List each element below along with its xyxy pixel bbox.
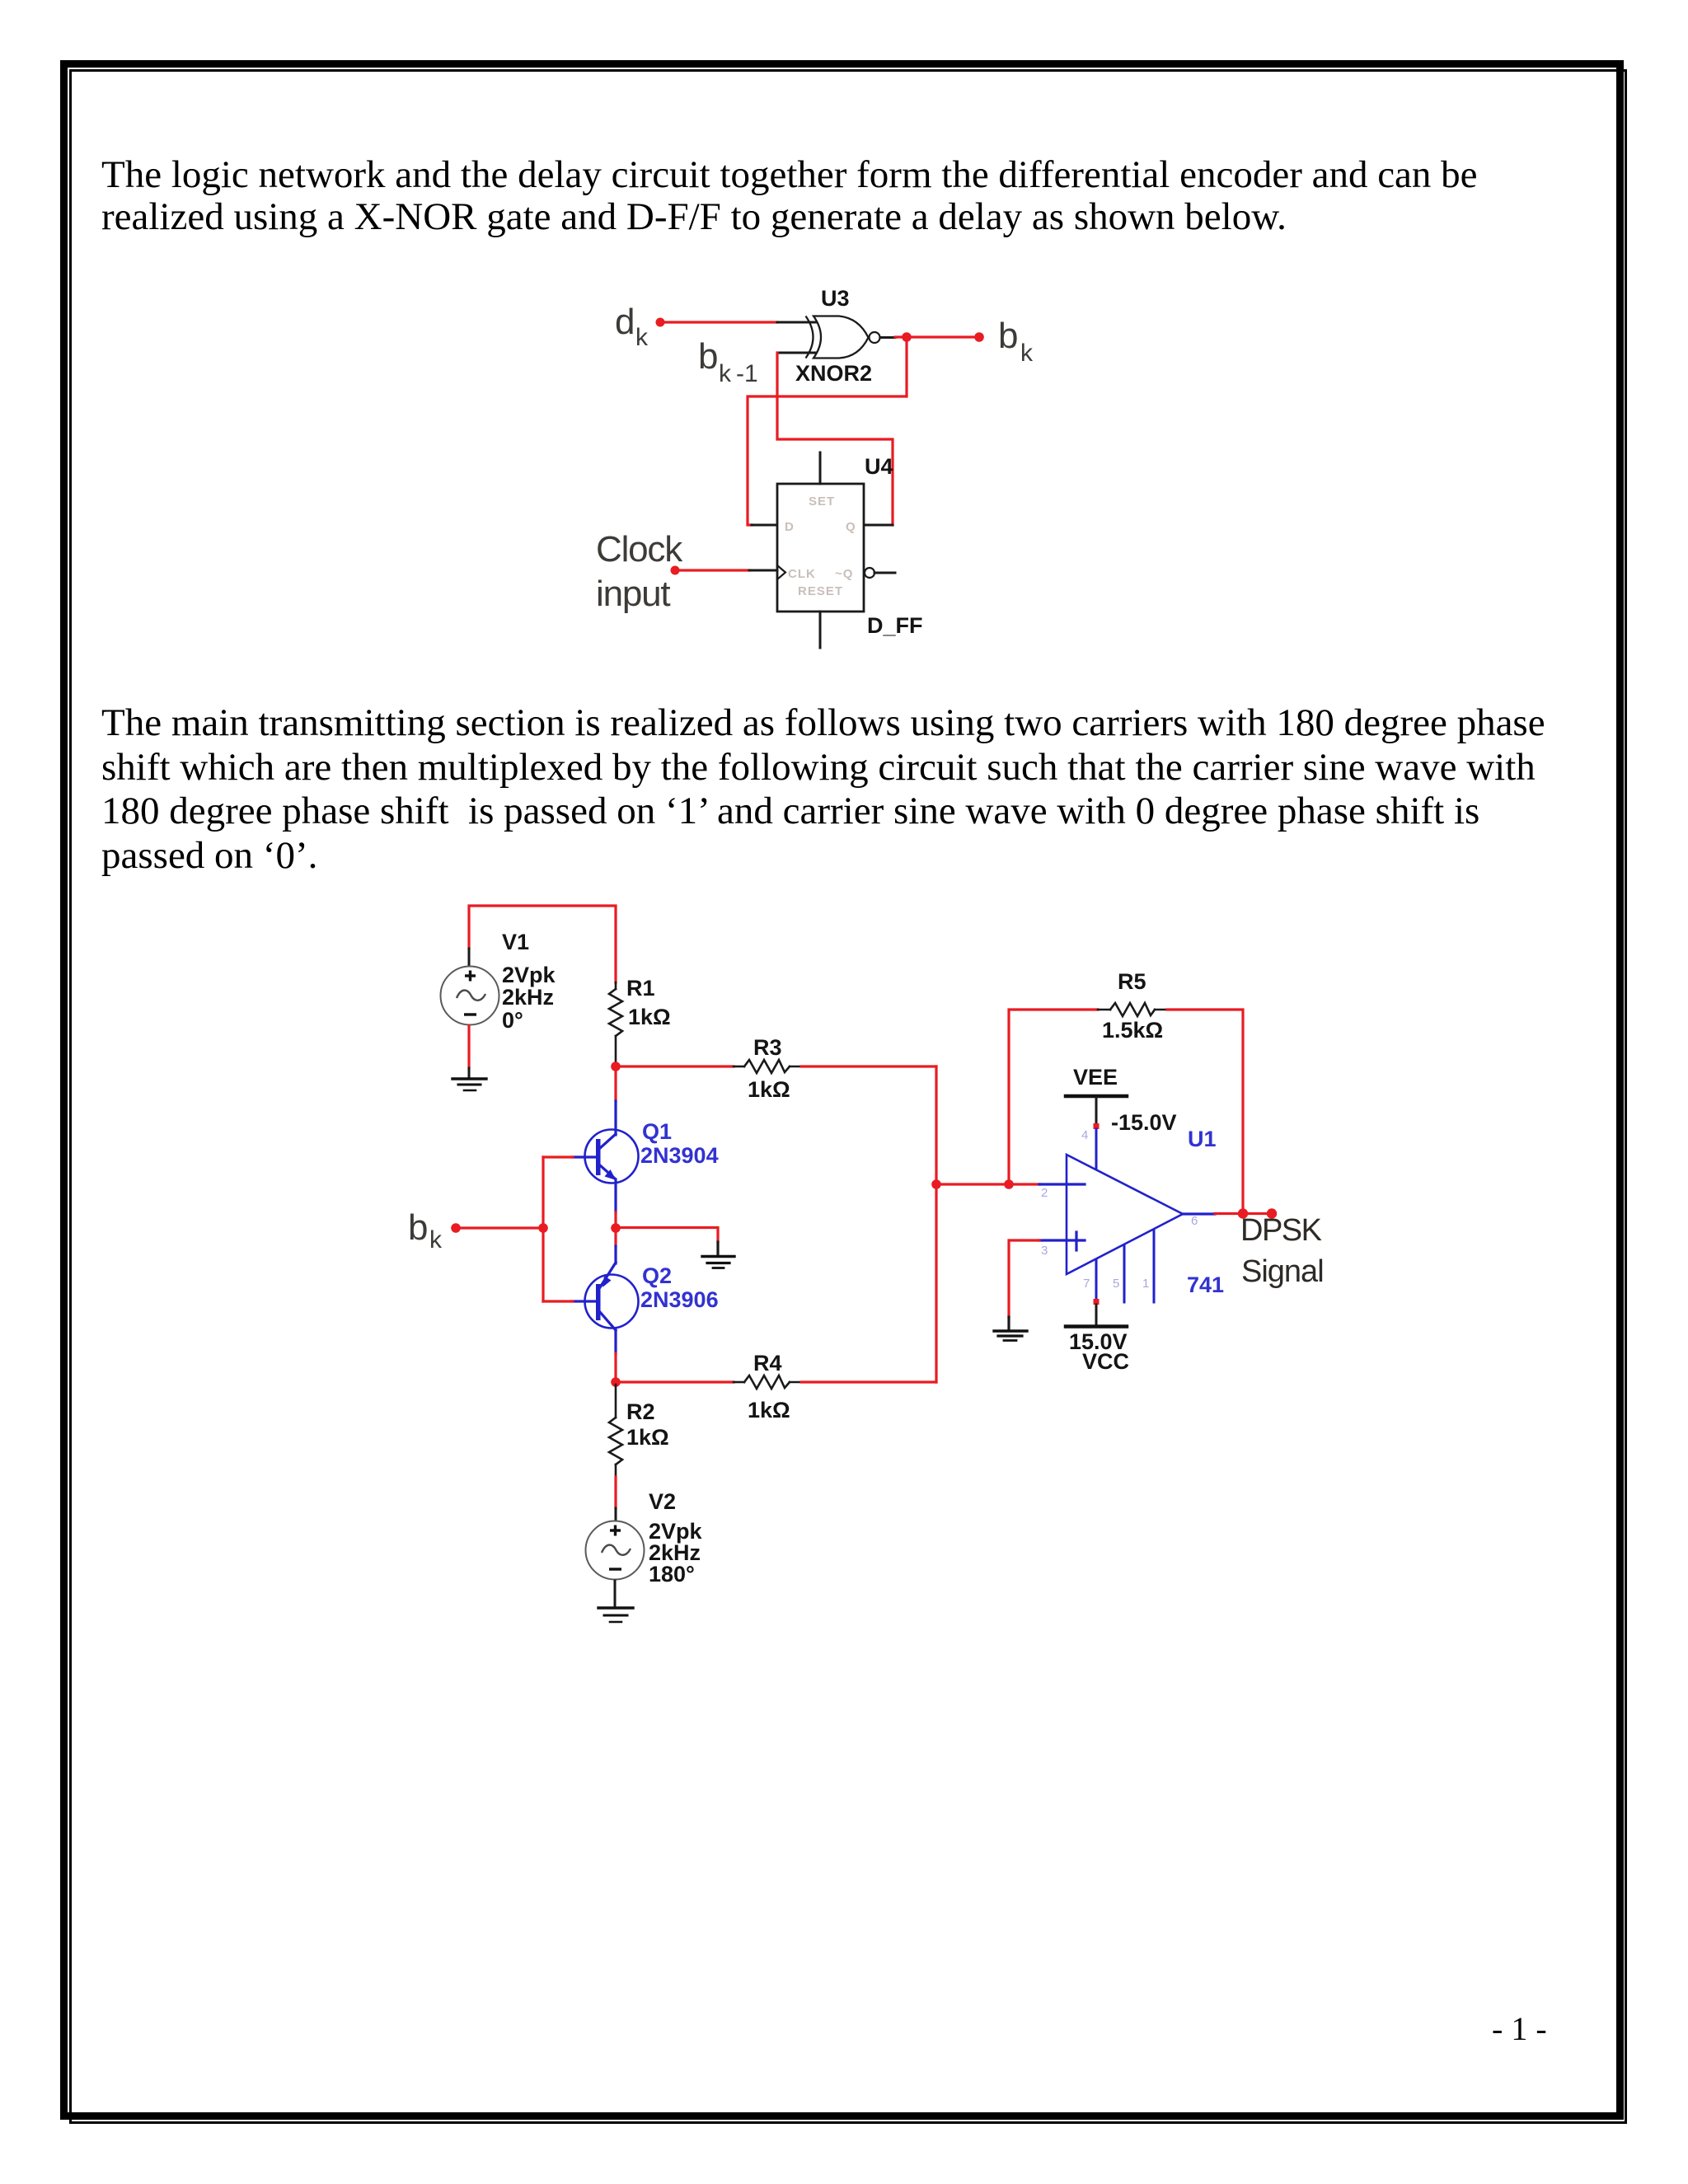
svg-text:1kΩ: 1kΩ <box>628 1005 671 1029</box>
node b_k-1 label <box>698 336 758 387</box>
page number <box>1492 2009 1547 2048</box>
wire V2 bottom stub <box>614 1581 617 1607</box>
wire R3 to right bus <box>801 1065 936 1067</box>
label 15.0V VCC <box>1069 1329 1129 1374</box>
label Clock input <box>596 529 683 614</box>
label R5 <box>1102 969 1163 1043</box>
pin 5 offset lead <box>1123 1245 1126 1302</box>
label U4 <box>865 454 893 479</box>
source V2 <box>586 1521 645 1580</box>
~Q bubble <box>865 568 874 578</box>
svg-text:V2: V2 <box>649 1489 676 1514</box>
svg-text:-15.0V: -15.0V <box>1111 1110 1177 1135</box>
svg-text:1kΩ: 1kΩ <box>748 1398 790 1422</box>
svg-text:3: 3 <box>1041 1244 1048 1258</box>
wire bk input <box>456 1226 543 1229</box>
svg-text:R4: R4 <box>753 1351 782 1376</box>
wire V1 bottom <box>467 1026 470 1078</box>
pin label RESET <box>798 584 843 598</box>
resistor R2 <box>609 1385 622 1477</box>
resistor R3 <box>734 1060 801 1073</box>
junction dot bk bus <box>538 1223 548 1233</box>
junction node N1 <box>611 1062 621 1071</box>
label V1 values <box>502 930 556 1033</box>
wire Q output to XNOR input B <box>777 353 893 525</box>
wire XNOR out to bk <box>895 335 979 338</box>
wire right bus vertical <box>935 1066 937 1382</box>
clk edge triangle <box>777 565 785 579</box>
label D_FF <box>867 613 923 638</box>
svg-text:R2: R2 <box>626 1399 655 1424</box>
wire pin3 to ground <box>1009 1240 1039 1329</box>
pin 4 lead <box>1095 1129 1098 1171</box>
wire Q output stub <box>864 524 893 527</box>
svg-text:~Q: ~Q <box>835 567 853 581</box>
label U3 <box>821 286 850 311</box>
wire VCC stub <box>1095 1305 1098 1326</box>
svg-text:1kΩ: 1kΩ <box>748 1077 790 1102</box>
label Q1 <box>640 1119 719 1168</box>
svg-text:Q: Q <box>846 520 856 534</box>
label DPSK Signal <box>1240 1213 1324 1289</box>
wire RESET stub bottom <box>819 612 822 648</box>
svg-text:b: b <box>408 1207 427 1248</box>
wire node to Q2 emitter <box>614 1227 617 1246</box>
node d_k label <box>615 302 649 351</box>
svg-text:2Vpk: 2Vpk <box>502 963 556 987</box>
transistor Q2 2N3906 <box>573 1246 639 1353</box>
wire N2 to R4 <box>616 1380 734 1383</box>
D flip-flop U4 body <box>777 484 864 612</box>
pin 2 inverting lead and minus <box>1039 1183 1085 1185</box>
pin label CLK <box>788 567 816 581</box>
node clock terminal dot <box>671 566 680 575</box>
svg-text:input: input <box>596 574 670 614</box>
svg-text:1.5kΩ: 1.5kΩ <box>1102 1018 1163 1043</box>
label R3 <box>748 1035 790 1102</box>
ground mid <box>702 1257 734 1268</box>
label U1 <box>1188 1127 1217 1151</box>
op-amp U1 triangle <box>1067 1155 1183 1274</box>
junction dot pin2 wire <box>1004 1179 1014 1189</box>
paragraph 2 <box>101 701 1585 878</box>
node dk terminal dot <box>656 318 665 327</box>
svg-text:1kΩ: 1kΩ <box>626 1425 669 1450</box>
svg-text:CLK: CLK <box>788 567 816 581</box>
node DPSK terminal dot <box>1267 1208 1277 1218</box>
label R2 <box>626 1399 669 1450</box>
svg-text:R3: R3 <box>753 1035 782 1060</box>
svg-text:-1: -1 <box>736 360 758 387</box>
pin 7 VCC lead <box>1095 1260 1098 1301</box>
svg-text:V1: V1 <box>502 930 529 954</box>
wire feedback R5 loop left <box>1009 1010 1098 1184</box>
svg-text:2: 2 <box>1041 1186 1048 1200</box>
wire dk to XNOR input A <box>660 321 777 323</box>
node bk terminal dot <box>974 332 984 342</box>
svg-text:7: 7 <box>1083 1277 1090 1291</box>
wire ~Q stub <box>874 572 895 574</box>
junction dot bk <box>902 332 912 342</box>
ground pin3 <box>994 1331 1027 1341</box>
wire clock input <box>675 569 749 571</box>
svg-text:VEE: VEE <box>1073 1065 1118 1090</box>
wire Q2 base red <box>543 1300 573 1302</box>
wire SET stub top <box>819 452 822 484</box>
transistor Q1 2N3904 <box>573 1101 639 1212</box>
wire D input stub <box>752 524 777 527</box>
wire R4 to right bus <box>801 1380 936 1383</box>
wire Q1 base red <box>543 1155 573 1158</box>
wire base bus vertical <box>542 1157 544 1301</box>
svg-text:DPSK: DPSK <box>1240 1213 1322 1248</box>
svg-text:k: k <box>719 360 732 387</box>
pin number 7 <box>1083 1277 1090 1291</box>
wire N1 to R3 <box>616 1065 734 1067</box>
svg-text:2N3904: 2N3904 <box>640 1143 719 1168</box>
paragraph 1 <box>101 154 1585 238</box>
svg-text:D: D <box>785 520 795 534</box>
svg-text:Signal: Signal <box>1241 1254 1324 1289</box>
ground V1 <box>452 1079 486 1090</box>
resistor R1 <box>609 982 622 1066</box>
junction dot emitters <box>611 1223 621 1233</box>
svg-text:XNOR2: XNOR2 <box>795 361 872 386</box>
label V2 values <box>649 1489 703 1586</box>
svg-text:U4: U4 <box>865 454 893 479</box>
svg-text:U1: U1 <box>1188 1127 1217 1151</box>
wire top rail V1 to R1 <box>469 906 616 982</box>
svg-text:Q2: Q2 <box>642 1263 672 1288</box>
wire bus to op-amp pin2 <box>936 1183 1039 1185</box>
svg-text:b: b <box>998 316 1017 356</box>
wire N1 to Q1 collector <box>614 1066 617 1101</box>
source V1 <box>441 967 499 1025</box>
wire XNOR input stub A <box>777 321 816 324</box>
xnor-gate U3 <box>806 316 880 359</box>
wire R2 to V2 <box>614 1477 617 1521</box>
svg-text:2N3906: 2N3906 <box>640 1287 719 1312</box>
svg-text:k: k <box>1020 340 1034 367</box>
label VEE <box>1073 1065 1118 1090</box>
pin label D <box>785 520 795 534</box>
label R4 <box>748 1351 790 1422</box>
junction dot right bus <box>931 1179 941 1189</box>
pin 1 offset lead <box>1153 1230 1156 1302</box>
svg-text:Q1: Q1 <box>642 1119 672 1144</box>
svg-text:6: 6 <box>1191 1214 1198 1228</box>
wire Q1 emitter to node <box>614 1212 617 1227</box>
wire R5 to output <box>1167 1010 1243 1212</box>
pin 7 red pad <box>1094 1299 1100 1305</box>
pin 3 non-inverting lead and plus <box>1039 1232 1085 1250</box>
svg-text:2kHz: 2kHz <box>502 985 554 1010</box>
wire Q2 collector to node N2 <box>614 1353 617 1382</box>
pin number 6 <box>1191 1214 1198 1228</box>
svg-text:0°: 0° <box>502 1008 523 1033</box>
pin 4 red pad <box>1094 1123 1100 1129</box>
wire CLK stub <box>749 569 777 572</box>
node b_k input label <box>408 1207 443 1254</box>
wire XNOR output stub <box>880 336 895 339</box>
svg-text:VCC: VCC <box>1082 1349 1129 1374</box>
label Q2 <box>640 1263 719 1312</box>
svg-text:R1: R1 <box>626 976 655 1001</box>
junction node N2 <box>611 1377 621 1387</box>
svg-text:b: b <box>698 336 717 377</box>
pin number 4 <box>1081 1128 1088 1142</box>
svg-text:k: k <box>635 324 649 351</box>
svg-text:d: d <box>615 302 634 342</box>
pin number 3 <box>1041 1244 1048 1258</box>
svg-text:741: 741 <box>1187 1272 1224 1297</box>
label R1 <box>626 976 671 1029</box>
junction dot output <box>1238 1208 1248 1218</box>
wire feedback XNOR out to D input <box>748 337 907 525</box>
pin label ~Q <box>835 567 853 581</box>
pin number 5 <box>1113 1277 1119 1291</box>
pin number 2 <box>1041 1186 1048 1200</box>
svg-text:5: 5 <box>1113 1277 1119 1291</box>
svg-text:SET: SET <box>809 494 835 509</box>
node b_k output label <box>998 316 1034 367</box>
VCC rail bar <box>1066 1324 1127 1329</box>
wire emitters to ground <box>616 1228 718 1256</box>
wire VEE stub <box>1095 1098 1098 1124</box>
label -15.0V <box>1111 1110 1177 1135</box>
wire XNOR input stub B <box>777 352 816 354</box>
node bk terminal dot 2 <box>451 1223 461 1233</box>
pin number 1 <box>1142 1277 1149 1291</box>
svg-text:4: 4 <box>1081 1128 1088 1142</box>
svg-text:k: k <box>429 1226 443 1254</box>
svg-text:U3: U3 <box>821 286 850 311</box>
svg-text:Clock: Clock <box>596 529 683 569</box>
label XNOR2 <box>795 361 872 386</box>
ground V2 <box>598 1608 633 1622</box>
svg-text:R5: R5 <box>1118 969 1146 994</box>
resistor R5 <box>1098 1003 1167 1016</box>
svg-text:D_FF: D_FF <box>867 613 923 638</box>
label 741 <box>1187 1272 1224 1297</box>
wire V1 top stub <box>468 949 471 966</box>
svg-text:1: 1 <box>1142 1277 1149 1291</box>
svg-text:RESET: RESET <box>798 584 843 598</box>
pin 6 output lead <box>1183 1212 1215 1215</box>
pin label Q <box>846 520 856 534</box>
pin label SET <box>809 494 835 509</box>
wire output <box>1215 1212 1272 1215</box>
resistor R4 <box>734 1376 801 1389</box>
VEE rail bar <box>1066 1094 1127 1099</box>
svg-text:180°: 180° <box>649 1562 695 1586</box>
